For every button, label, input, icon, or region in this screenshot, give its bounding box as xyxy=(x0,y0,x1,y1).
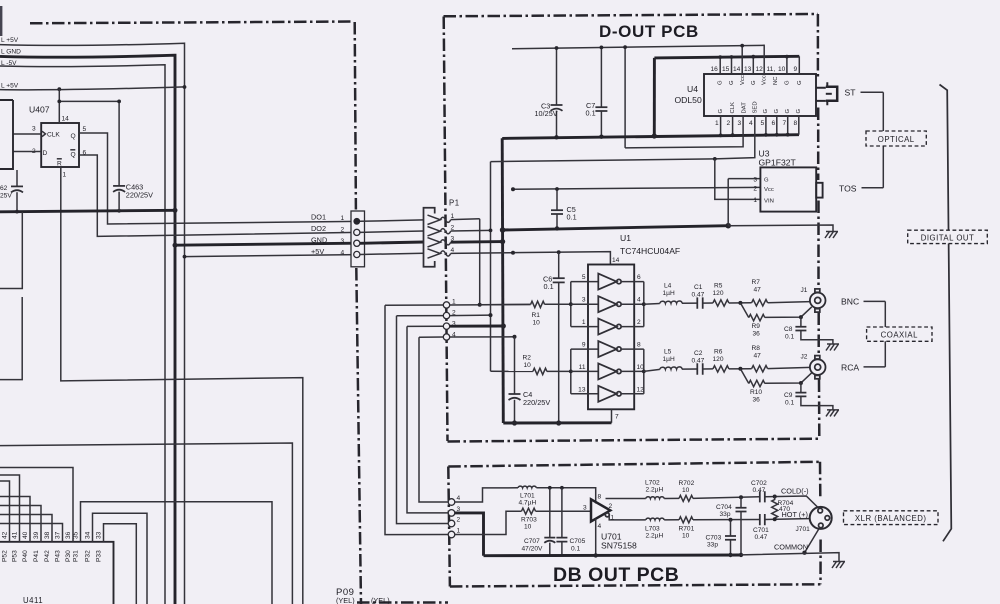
wire R7 to J1 xyxy=(768,302,815,303)
wire U1 out to L5 xyxy=(644,369,660,371)
svg-text:R: R xyxy=(57,161,62,168)
dashed box DIGITAL OUT xyxy=(908,230,988,243)
U4 pin6 wire xyxy=(776,116,778,135)
svg-text:10: 10 xyxy=(682,533,690,540)
svg-text:3: 3 xyxy=(582,297,586,304)
dashed box OPTICAL xyxy=(866,131,926,146)
svg-text:ST: ST xyxy=(845,88,857,98)
riser lower row4 to DB xyxy=(419,337,448,502)
svg-text:(YEL): (YEL) xyxy=(371,596,390,604)
border page bottom dash-dot xyxy=(357,601,448,604)
wire +5V line A xyxy=(0,43,185,604)
svg-text:2.2µH: 2.2µH xyxy=(646,533,664,540)
opamp U701 triangle xyxy=(591,499,610,521)
P1 contact row4 xyxy=(428,249,451,258)
svg-text:9: 9 xyxy=(582,342,586,349)
svg-text:62: 62 xyxy=(0,185,8,192)
DB feedthrough circle 4 xyxy=(448,499,455,506)
DB feedthrough circle 2 xyxy=(448,520,455,527)
connector P1 housing xyxy=(424,208,435,267)
svg-text:0.47: 0.47 xyxy=(692,292,705,299)
wire +5V rail top xyxy=(512,45,765,48)
DB feedthrough circle 3 xyxy=(448,510,455,517)
inverter U1b xyxy=(598,296,616,312)
junction dot SED VIN node xyxy=(713,157,717,161)
U411 P41 lead xyxy=(0,506,41,542)
svg-text:C702: C702 xyxy=(751,480,767,487)
feedthrough circle 2 xyxy=(443,312,449,318)
U407 D input wire xyxy=(13,151,41,153)
svg-text:L703: L703 xyxy=(645,526,660,533)
capacitor C8 xyxy=(800,317,802,326)
U1 input bracket lower xyxy=(570,349,572,394)
svg-text:Q: Q xyxy=(71,133,76,140)
IC U407 body xyxy=(41,123,79,167)
svg-text:R8: R8 xyxy=(752,345,761,352)
svg-text:10: 10 xyxy=(533,320,541,327)
svg-text:SN75158: SN75158 xyxy=(601,541,637,551)
wire R703 to U701 input xyxy=(536,510,592,512)
junction dot C703 top xyxy=(729,518,733,522)
resistor R10 diagonal feed xyxy=(740,369,748,384)
junction dot C707 top xyxy=(548,486,552,490)
junction dot R704 top xyxy=(773,495,777,499)
svg-text:R7: R7 xyxy=(752,279,761,286)
junction dot frame bus xyxy=(652,133,657,138)
wire U4 top ground bus thick xyxy=(654,56,799,58)
svg-text:G: G xyxy=(718,109,724,114)
inverter U1f xyxy=(598,386,616,402)
IC U1 body xyxy=(588,265,634,410)
U3 lens tab xyxy=(816,183,822,198)
svg-text:G: G xyxy=(763,109,769,114)
svg-text:R701: R701 xyxy=(679,526,695,533)
svg-text:OPTICAL: OPTICAL xyxy=(878,135,915,144)
SECTION: connectors mid xyxy=(311,138,531,604)
svg-text:4: 4 xyxy=(749,120,753,127)
svg-text:P43: P43 xyxy=(55,550,62,562)
svg-text:39: 39 xyxy=(33,531,40,539)
U4 pin1 wire xyxy=(720,116,722,136)
svg-text:C704: C704 xyxy=(716,504,732,511)
capacitor C702 xyxy=(760,491,765,502)
junction dot +5V wire at A xyxy=(183,255,187,259)
coaxial bracket vertical xyxy=(884,301,886,367)
svg-text:2: 2 xyxy=(727,120,731,127)
svg-text:Q: Q xyxy=(71,152,76,159)
U4 pin4 SED wire xyxy=(715,116,755,159)
svg-text:38: 38 xyxy=(44,531,51,539)
svg-text:R10: R10 xyxy=(750,389,762,396)
svg-text:TOS: TOS xyxy=(839,184,857,194)
U407 pin 14 wire xyxy=(58,89,60,123)
svg-text:CLK: CLK xyxy=(47,132,60,139)
svg-text:3: 3 xyxy=(738,120,742,127)
capacitor C3 xyxy=(556,48,558,105)
border D-OUT left dash-dot xyxy=(444,17,448,442)
resistor R1 xyxy=(480,303,531,305)
junction dot C9 node xyxy=(799,381,803,385)
U411 P32 wire to page bottom xyxy=(93,513,148,604)
wire VIN drop xyxy=(715,159,761,200)
wire P1 row4 to riser xyxy=(451,252,513,255)
ground symbol BNC xyxy=(826,344,839,351)
svg-text:1: 1 xyxy=(457,528,461,535)
wire C701 to HOT xyxy=(765,518,826,519)
svg-text:P40: P40 xyxy=(22,550,29,562)
capacitor C705 xyxy=(561,488,563,538)
svg-text:D-OUT PCB: D-OUT PCB xyxy=(599,22,699,41)
junction dot BNC node xyxy=(738,301,742,305)
inductor L702 xyxy=(646,497,664,499)
svg-text:36: 36 xyxy=(753,397,761,404)
svg-text:0.1: 0.1 xyxy=(785,334,794,341)
U4 pin7 wire xyxy=(787,116,789,135)
wire R6 to node xyxy=(729,368,752,370)
inverter U1a xyxy=(598,274,616,290)
resistor R704 vertical xyxy=(772,497,778,520)
wire +5V branch to U1 pin14 xyxy=(515,252,611,265)
left edge box fragment lower xyxy=(0,297,22,380)
connector pin 1 filled xyxy=(353,218,360,225)
wire P1 row1 to riser xyxy=(451,218,480,221)
svg-text:COLD(-): COLD(-) xyxy=(781,487,809,496)
ground symbol DB xyxy=(832,562,845,569)
svg-text:P42: P42 xyxy=(44,550,51,562)
border D-OUT right dash-dot xyxy=(818,14,819,439)
border DB right dash-dot xyxy=(819,462,822,585)
svg-text:16: 16 xyxy=(711,66,719,73)
wire DO1 riser xyxy=(479,219,481,305)
svg-text:P30: P30 xyxy=(65,550,72,562)
wire R701 to C701 xyxy=(693,519,760,521)
wire +5V to connector xyxy=(185,255,357,257)
U701 output bubble pin1 xyxy=(605,513,609,517)
U4 pin5 wire xyxy=(765,116,767,135)
IC U3 body xyxy=(760,167,816,211)
wire P1 row3 to riser thick xyxy=(451,240,503,243)
U4 pin2 wire xyxy=(732,116,734,135)
U701 pin4 wire xyxy=(595,519,597,556)
resistor R2 xyxy=(491,370,533,372)
connector J701 XLR xyxy=(810,507,832,529)
junction dot row4 riser xyxy=(513,335,517,339)
svg-text:0.1: 0.1 xyxy=(544,282,554,291)
U411 P31 wire to page bottom xyxy=(81,502,273,604)
U1 pin7 wire xyxy=(611,409,613,423)
feedthrough circle 4 xyxy=(443,334,449,340)
svg-text:GP1F32T: GP1F32T xyxy=(759,158,797,168)
svg-text:2: 2 xyxy=(457,517,461,524)
wire TOS to optical bracket xyxy=(862,187,884,189)
SECTION: left main board xyxy=(0,37,357,604)
svg-text:0.47: 0.47 xyxy=(753,487,766,494)
wire U701 out1 to L703 xyxy=(609,515,646,520)
svg-text:+5V: +5V xyxy=(311,247,324,256)
svg-text:120: 120 xyxy=(713,290,724,297)
wire row2 conn to P1 xyxy=(360,231,424,232)
U407 pin6 Qbar wire to DO2 xyxy=(79,155,357,236)
U411 P30 lead xyxy=(0,468,73,542)
wire lower row3 to GND riser thick xyxy=(450,325,504,328)
border DB bottom dash-dot xyxy=(450,584,821,586)
resistor R5 xyxy=(713,300,729,306)
wire L701 to U701 pin8 xyxy=(536,488,595,504)
svg-text:10: 10 xyxy=(524,362,532,369)
resistor R701 xyxy=(679,517,693,523)
svg-text:U1: U1 xyxy=(620,233,631,243)
U4 pin15 wire xyxy=(731,57,733,74)
wire lower row1 to R1 xyxy=(450,304,531,307)
wire R10 to shield xyxy=(765,373,812,384)
svg-text:40: 40 xyxy=(22,531,29,539)
wire ST to optical bracket xyxy=(861,91,884,93)
wire RCA to coax bracket xyxy=(864,366,886,368)
svg-text:RCA: RCA xyxy=(841,363,859,373)
svg-text:9: 9 xyxy=(794,66,798,73)
svg-text:G: G xyxy=(796,109,802,114)
svg-text:DB OUT PCB: DB OUT PCB xyxy=(553,564,679,586)
svg-text:6: 6 xyxy=(772,120,776,127)
svg-text:7: 7 xyxy=(615,414,619,421)
wire C2 to R6 xyxy=(703,368,713,370)
svg-text:3: 3 xyxy=(32,126,36,133)
U4 pin14 wire to +5V xyxy=(741,46,743,74)
U411 P42 lead xyxy=(0,515,52,542)
svg-text:VIN: VIN xyxy=(764,199,774,205)
junction dot GND bus U3 xyxy=(725,223,731,229)
svg-text:C701: C701 xyxy=(753,527,769,534)
wire R8 to J2 xyxy=(768,367,815,368)
border DB left dash-dot xyxy=(448,467,450,587)
svg-text:5: 5 xyxy=(83,126,87,133)
junction dot GND wire at B xyxy=(173,243,178,248)
wire L702 to R702 xyxy=(664,497,679,499)
riser lower row2 to DB xyxy=(397,316,449,524)
svg-text:4: 4 xyxy=(457,495,461,502)
svg-text:33: 33 xyxy=(96,531,103,539)
svg-text:C705: C705 xyxy=(570,538,586,545)
svg-text:G: G xyxy=(751,80,757,85)
svg-text:U4: U4 xyxy=(687,84,698,94)
svg-text:P31: P31 xyxy=(73,550,80,562)
U4 pin13 wire xyxy=(752,57,754,75)
wire GND to connector thick xyxy=(175,243,357,245)
wire DB pin1 to R703 xyxy=(455,511,522,534)
junction dot C4 rail xyxy=(512,420,517,425)
junction dot C6 rail xyxy=(556,420,561,425)
svg-text:P41: P41 xyxy=(33,550,40,562)
svg-text:41: 41 xyxy=(12,531,19,539)
svg-text:DO2: DO2 xyxy=(311,224,326,233)
junction dot line D pin14 xyxy=(57,87,61,91)
svg-text:5: 5 xyxy=(582,274,586,281)
svg-text:P53: P53 xyxy=(12,550,19,562)
svg-text:120: 120 xyxy=(713,356,724,363)
svg-text:47: 47 xyxy=(754,353,762,360)
capacitor C7 xyxy=(600,47,602,107)
resistor R702 xyxy=(679,495,693,501)
svg-text:L5: L5 xyxy=(664,349,672,356)
wire L4 to C1 xyxy=(682,302,698,304)
svg-text:HOT (+): HOT (+) xyxy=(782,510,808,519)
junction dot GND row3 xyxy=(500,239,505,244)
svg-text:36: 36 xyxy=(753,331,761,338)
svg-text:10: 10 xyxy=(682,487,690,494)
U1 input bracket upper xyxy=(570,282,572,327)
svg-text:13: 13 xyxy=(578,387,586,394)
wire lower row4 left xyxy=(419,336,443,338)
wire lower row3 left xyxy=(407,325,443,327)
wire long GND row to page bottom xyxy=(0,443,292,604)
U4 pin9 wire xyxy=(798,56,800,74)
wire Vcc line to U3 xyxy=(513,187,760,189)
junction dot row3 riser xyxy=(501,323,506,328)
U4 pin16 wire xyxy=(719,57,721,74)
svg-text:G: G xyxy=(797,80,803,85)
P1 contact row3 xyxy=(428,238,451,247)
svg-text:(YEL): (YEL) xyxy=(336,596,355,604)
wire row3 conn to P1 thick xyxy=(360,242,424,243)
svg-text:1: 1 xyxy=(715,120,719,127)
svg-text:220/25V: 220/25V xyxy=(523,398,550,407)
page edge artifact top left xyxy=(0,6,2,36)
capacitor C2 xyxy=(697,363,702,374)
resistor R703 xyxy=(522,508,536,514)
svg-text:12: 12 xyxy=(756,66,764,73)
svg-text:COMMON: COMMON xyxy=(774,543,808,552)
capacitor C4 xyxy=(514,337,516,394)
svg-text:DO1: DO1 xyxy=(311,213,326,222)
P1 contact row1 xyxy=(428,215,451,224)
svg-text:P1: P1 xyxy=(449,199,460,208)
wire GND bus mid thick xyxy=(502,226,728,230)
svg-text:P32: P32 xyxy=(85,550,92,562)
svg-text:2: 2 xyxy=(609,503,613,510)
inductor L4 xyxy=(660,301,682,303)
U1 output bracket lower xyxy=(643,349,645,394)
svg-text:Vcc: Vcc xyxy=(764,187,774,193)
svg-text:11,: 11, xyxy=(767,66,776,73)
SECTION: coax out xyxy=(644,279,932,416)
svg-text:47: 47 xyxy=(754,287,762,294)
svg-text:0.1: 0.1 xyxy=(785,400,794,407)
capacitor C704 xyxy=(740,497,742,507)
wire L703 to R701 xyxy=(664,519,679,521)
junction dot line D at A vertical xyxy=(183,85,187,89)
svg-text:3: 3 xyxy=(753,177,757,184)
wire GND bus to chassis xyxy=(728,225,833,232)
svg-text:10/25V: 10/25V xyxy=(535,109,558,118)
resistor R9 diagonal feed xyxy=(740,303,748,318)
wire DO2 riser xyxy=(490,162,492,372)
capacitor C701 xyxy=(760,514,765,525)
svg-text:8: 8 xyxy=(637,342,641,349)
digital out bracket xyxy=(940,85,952,542)
SECTION: U1 area xyxy=(480,233,680,426)
svg-text:13: 13 xyxy=(744,66,752,73)
wire R5 to node xyxy=(729,302,752,304)
capacitor C463 xyxy=(118,101,120,185)
svg-text:2: 2 xyxy=(753,186,757,193)
svg-text:3: 3 xyxy=(583,505,587,512)
optical bracket vertical xyxy=(882,92,884,188)
svg-text:0.1: 0.1 xyxy=(571,546,580,553)
wire R702 to C702 xyxy=(693,497,760,499)
border P09 vertical dash-dot xyxy=(355,22,361,604)
inductor L5 xyxy=(660,367,682,369)
svg-text:G: G xyxy=(784,80,790,85)
svg-text:G: G xyxy=(729,80,735,85)
svg-text:GND: GND xyxy=(311,236,327,245)
wire GND rail bottom thick xyxy=(503,421,611,424)
svg-text:XLR (BALANCED): XLR (BALANCED) xyxy=(855,514,927,523)
svg-text:U411: U411 xyxy=(23,596,43,604)
svg-text:33p: 33p xyxy=(720,511,731,518)
svg-text:L701: L701 xyxy=(520,493,535,500)
U4 pin3 DAT wire xyxy=(625,116,743,148)
junction dot row2 riser xyxy=(489,313,493,317)
junction dot COMMON xyxy=(802,551,806,555)
P1 contact row2 xyxy=(428,227,451,236)
U407 CLK input wire xyxy=(13,133,41,135)
svg-text:Vcc: Vcc xyxy=(740,75,746,85)
resistor R7 xyxy=(752,300,768,306)
capacitor C707 xyxy=(549,488,551,538)
junction dot C8 node xyxy=(799,315,803,319)
wire DAT pullup vertical xyxy=(624,47,626,148)
resistor R6 xyxy=(713,366,729,372)
wire rail to chassis xyxy=(741,553,839,562)
thick GND bus left xyxy=(0,210,175,212)
svg-text:R5: R5 xyxy=(714,283,723,290)
junction dot GND bus mid at riser xyxy=(500,227,506,233)
U407 pin1 reset wire long xyxy=(61,167,303,604)
svg-text:R702: R702 xyxy=(679,480,695,487)
U4 pin12 wire to +5V corner xyxy=(763,45,766,74)
dashed box XLR BALANCED xyxy=(844,511,939,525)
connector pin 4 xyxy=(354,251,360,257)
svg-text:U407: U407 xyxy=(29,105,50,115)
svg-text:36: 36 xyxy=(65,531,72,539)
U4 pin10 wire xyxy=(786,56,788,74)
svg-text:L4: L4 xyxy=(664,283,672,290)
svg-text:R1: R1 xyxy=(532,312,541,319)
svg-text:L GND: L GND xyxy=(1,49,21,56)
svg-text:4: 4 xyxy=(598,523,602,530)
ground symbol RCA xyxy=(826,410,839,417)
border PCB top dash-dot xyxy=(30,22,352,24)
svg-text:42: 42 xyxy=(2,531,9,539)
wire DB pin4 to L701 xyxy=(455,488,518,502)
svg-text:1µH: 1µH xyxy=(663,290,675,297)
svg-text:C1: C1 xyxy=(694,284,703,291)
svg-text:14: 14 xyxy=(62,116,70,123)
svg-text:10: 10 xyxy=(524,524,532,531)
svg-text:5: 5 xyxy=(761,120,765,127)
svg-text:0.47: 0.47 xyxy=(755,534,768,541)
svg-text:L +5V: L +5V xyxy=(1,37,19,44)
svg-text:7: 7 xyxy=(783,120,787,127)
junction dot C705 top xyxy=(560,486,564,490)
connector ST glyph xyxy=(816,88,826,101)
border D-OUT bottom dash-dot xyxy=(448,439,820,442)
svg-text:2: 2 xyxy=(341,227,345,234)
U1 input stubs xyxy=(571,282,599,394)
capacitor C9 xyxy=(800,383,802,392)
connector pin 3 xyxy=(354,240,360,246)
svg-text:P33: P33 xyxy=(96,550,103,562)
